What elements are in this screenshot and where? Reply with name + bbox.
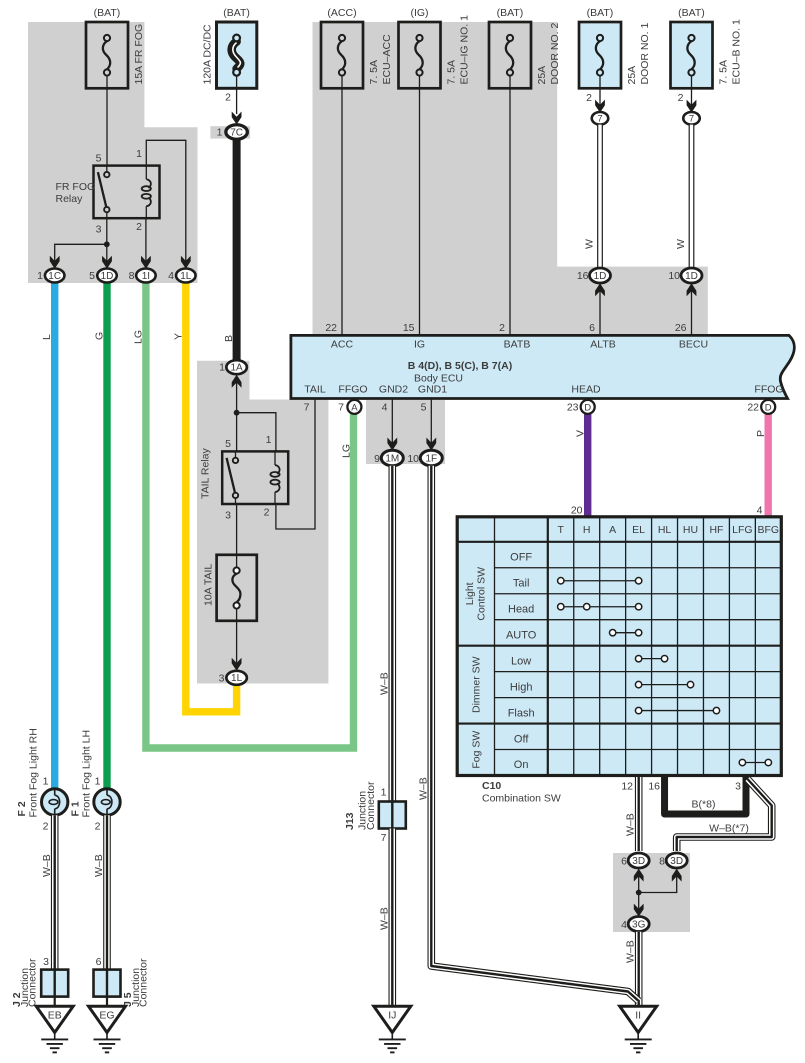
arrow into 6 3D [634, 869, 644, 882]
svg-text:1M: 1M [385, 453, 399, 464]
svg-text:On: On [514, 759, 529, 771]
svg-text:DOOR NO. 2: DOOR NO. 2 [549, 22, 561, 84]
svg-text:FFOG: FFOG [754, 384, 783, 396]
svg-text:ACC: ACC [331, 339, 354, 351]
svg-text:22: 22 [325, 322, 337, 334]
fuse 25A DOOR NO.1 [579, 22, 621, 88]
ground II [620, 1006, 657, 1032]
svg-text:ECU–B NO. 1: ECU–B NO. 1 [731, 19, 743, 85]
svg-text:7: 7 [689, 114, 694, 125]
svg-text:3: 3 [219, 672, 225, 684]
wire W from connector 7 to 10(1D) [689, 125, 695, 269]
svg-text:HU: HU [683, 524, 698, 536]
wire DOOR NO.1 fuse pin 2 to connector 7 [599, 76, 601, 112]
wire W-B GND1/1F to ground II [431, 466, 638, 1001]
svg-text:W–B(*7): W–B(*7) [709, 823, 749, 835]
svg-text:H: H [583, 524, 591, 536]
wire 1D to ALTB pin 6 [599, 283, 601, 335]
svg-text:FR FOG: FR FOG [56, 181, 96, 193]
svg-text:W–B: W–B [624, 940, 636, 963]
wire relay pin 2 to 1I [145, 218, 147, 262]
svg-text:AUTO: AUTO [506, 629, 537, 641]
svg-text:2: 2 [43, 821, 49, 833]
Body ECU B4(D) B5(C) B7(A) [291, 335, 794, 398]
svg-text:Connector: Connector [365, 781, 377, 830]
svg-text:BATB: BATB [504, 339, 531, 351]
svg-text:1I: 1I [142, 271, 150, 282]
svg-text:4: 4 [168, 270, 174, 282]
svg-text:5: 5 [96, 153, 102, 165]
svg-text:2: 2 [264, 507, 270, 519]
gray harness region (TAIL relay block) [197, 361, 328, 684]
svg-text:Front Fog Light RH: Front Fog Light RH [28, 728, 40, 817]
svg-text:A: A [351, 402, 358, 413]
svg-text:Fog SW: Fog SW [471, 731, 483, 769]
svg-text:8: 8 [659, 855, 665, 867]
svg-text:Front Fog Light LH: Front Fog Light LH [81, 730, 93, 818]
junction connector J5 [94, 970, 121, 997]
svg-text:C10: C10 [482, 780, 501, 792]
svg-text:Head: Head [508, 603, 534, 615]
svg-text:4: 4 [757, 505, 763, 517]
svg-text:1F: 1F [425, 453, 437, 464]
svg-text:7. 5A: 7. 5A [718, 60, 730, 85]
svg-text:IJ: IJ [388, 1010, 396, 1022]
svg-text:20: 20 [571, 505, 583, 517]
contact Head T-H-EL [561, 606, 639, 608]
svg-text:W–B: W–B [624, 813, 636, 836]
contact AUTO A-EL [613, 632, 639, 634]
wire L blue from 1C to front fog light RH [51, 282, 58, 789]
svg-text:1L: 1L [231, 673, 243, 684]
svg-text:Connector: Connector [138, 958, 150, 1007]
svg-text:W–B: W–B [417, 777, 429, 800]
svg-text:GND1: GND1 [418, 384, 447, 396]
svg-text:16: 16 [577, 270, 589, 282]
arrow into 8 3D [672, 869, 682, 882]
arrow into 1D [102, 256, 112, 269]
svg-text:4: 4 [621, 919, 627, 931]
svg-text:(ACC): (ACC) [327, 7, 356, 19]
arrow into 1M [387, 438, 397, 451]
wire P pink FFOG to combination SW pin 4 [765, 414, 772, 518]
svg-text:A: A [609, 524, 616, 536]
svg-text:3: 3 [43, 956, 49, 968]
svg-text:1: 1 [217, 127, 223, 139]
svg-text:GND2: GND2 [379, 384, 408, 396]
junction node 3D [636, 890, 642, 896]
arrow into 1I [141, 256, 151, 269]
wire W-B F1 to J5 [103, 815, 111, 970]
svg-text:ECU–IG NO. 1: ECU–IG NO. 1 [459, 15, 471, 85]
svg-text:B 4(D), B 5(C), B 7(A): B 4(D), B 5(C), B 7(A) [408, 360, 512, 372]
gray harness region (FR FOG relay block) [28, 22, 198, 283]
svg-text:120A DC/DC: 120A DC/DC [202, 24, 214, 85]
wire relay pin 1 to 1L [146, 140, 186, 262]
svg-text:15A FR FOG: 15A FR FOG [133, 24, 145, 85]
FR FOG relay [94, 166, 160, 219]
arrow into 7C [232, 112, 242, 125]
svg-text:W–B: W–B [93, 854, 105, 877]
svg-text:3D: 3D [670, 856, 683, 867]
svg-text:HL: HL [658, 524, 672, 536]
fuse 7.5A ECU-IG NO.1 [399, 22, 441, 88]
svg-text:2: 2 [678, 92, 684, 104]
wire LG light-green from 1I to FFGO [146, 282, 354, 748]
svg-text:(IG): (IG) [410, 7, 428, 19]
junction connector J13 [379, 802, 406, 829]
contact Tail T-EL [561, 580, 639, 582]
svg-text:1D: 1D [685, 271, 698, 282]
svg-text:3D: 3D [632, 856, 645, 867]
svg-text:Light: Light [464, 582, 476, 605]
svg-text:Relay: Relay [56, 193, 84, 205]
svg-text:1D: 1D [594, 271, 607, 282]
svg-text:3: 3 [225, 510, 231, 522]
wire relay pin 3 to 10A TAIL fuse [236, 504, 238, 571]
contact Flash EL-HF [639, 710, 717, 712]
wire junction to 3G [638, 893, 640, 911]
arrow into 1C [50, 256, 60, 269]
svg-text:6: 6 [96, 956, 102, 968]
svg-text:LFG: LFG [732, 524, 752, 536]
svg-text:W–B: W–B [378, 907, 390, 930]
wire W-B J13 to ground IJ [388, 829, 396, 1006]
front fog light RH F2 [42, 789, 68, 815]
wire ACC fuse to Body ECU pin 22 [341, 76, 343, 336]
svg-text:2: 2 [586, 92, 592, 104]
wire from 120A fuse to 7C [236, 76, 238, 115]
svg-text:7C: 7C [230, 127, 243, 138]
gray band behind connector 7C [210, 126, 250, 138]
svg-text:6: 6 [589, 322, 595, 334]
svg-text:High: High [510, 681, 533, 693]
svg-text:W: W [675, 239, 687, 249]
svg-text:L: L [41, 334, 53, 340]
svg-text:12: 12 [621, 781, 633, 793]
svg-text:5: 5 [225, 438, 231, 450]
fuse 15A FR FOG [86, 22, 128, 88]
svg-text:4: 4 [382, 402, 388, 414]
junction connector J2 [41, 970, 68, 997]
ground EG [89, 1006, 126, 1032]
svg-text:II: II [635, 1010, 641, 1022]
svg-text:OFF: OFF [510, 551, 532, 563]
connector 7 (DOOR NO.1) [592, 112, 609, 125]
svg-text:Connector: Connector [27, 958, 39, 1007]
wire W-B(*7) from pin 3 to 8(3D) [677, 779, 772, 851]
wire 1D to BECU pin 26 [691, 283, 693, 335]
svg-text:1: 1 [136, 148, 142, 160]
ground EB [36, 1006, 73, 1032]
svg-text:V: V [574, 430, 586, 437]
svg-text:Control SW: Control SW [476, 567, 488, 621]
svg-text:Tail: Tail [513, 577, 530, 589]
wire J2 to ground EB [54, 997, 56, 1007]
svg-text:HF: HF [709, 524, 723, 536]
arrow into 1L [181, 256, 191, 269]
junction node below 1A [234, 410, 240, 416]
svg-text:W–B: W–B [41, 854, 53, 877]
wire 10A TAIL fuse to 1L [236, 608, 238, 664]
wire W from connector 7 to 16(1D) [597, 125, 603, 269]
wire DOOR NO.2 fuse to Body ECU pin 2 [509, 76, 511, 336]
svg-text:J13: J13 [344, 812, 356, 830]
svg-text:W–B: W–B [378, 672, 390, 695]
svg-text:10: 10 [407, 453, 419, 465]
svg-text:8: 8 [129, 270, 135, 282]
wire J5 to ground EG [106, 997, 108, 1007]
svg-text:P: P [755, 430, 767, 437]
svg-text:10A TAIL: 10A TAIL [203, 564, 215, 606]
svg-text:EG: EG [99, 1010, 114, 1022]
svg-text:2: 2 [136, 221, 142, 233]
svg-text:3G: 3G [632, 919, 646, 930]
svg-text:1L: 1L [180, 271, 192, 282]
svg-text:(BAT): (BAT) [587, 7, 614, 19]
wire junction to 1D [106, 244, 108, 262]
svg-text:2: 2 [95, 821, 101, 833]
svg-text:BECU: BECU [679, 339, 708, 351]
wire junction to 1C [55, 244, 107, 262]
wire junction to relay pin 1 [237, 413, 276, 452]
svg-text:B(*8): B(*8) [692, 799, 716, 811]
svg-text:16: 16 [648, 781, 660, 793]
svg-text:D: D [584, 402, 591, 413]
svg-text:ALTB: ALTB [590, 339, 615, 351]
svg-text:Dimmer SW: Dimmer SW [471, 656, 483, 713]
svg-text:W: W [584, 239, 596, 249]
fuse 7.5A ECU-ACC [321, 22, 363, 88]
arrow into 1F [426, 438, 436, 451]
svg-text:7. 5A: 7. 5A [446, 60, 458, 85]
svg-text:1C: 1C [48, 271, 61, 282]
wire TAIL pin to relay pin 2 [276, 399, 315, 530]
svg-text:EL: EL [632, 524, 645, 536]
svg-text:1: 1 [43, 776, 49, 788]
svg-text:1: 1 [381, 786, 387, 798]
svg-text:EB: EB [48, 1010, 62, 1022]
wire B(*8) from pin 16 to pin 3 [665, 777, 746, 814]
svg-text:1: 1 [266, 434, 272, 446]
contact High EL-HU [639, 684, 691, 686]
svg-text:22: 22 [747, 402, 759, 414]
svg-text:IG: IG [414, 339, 425, 351]
wire ECU-B fuse pin 2 to connector 7 [691, 76, 693, 112]
svg-text:1: 1 [37, 270, 43, 282]
wire 1A to junction [236, 376, 238, 413]
arrow into 1L [232, 658, 242, 671]
svg-text:Off: Off [514, 733, 529, 745]
svg-text:1D: 1D [101, 271, 114, 282]
wire junction to relay pin 5 [236, 413, 238, 452]
wire 6(3D) to junction [638, 870, 640, 893]
svg-text:5: 5 [421, 402, 427, 414]
svg-text:DOOR NO. 1: DOOR NO. 1 [639, 22, 651, 84]
svg-text:3: 3 [96, 224, 102, 236]
svg-text:G: G [94, 332, 106, 340]
svg-text:7: 7 [338, 402, 344, 414]
svg-text:5: 5 [89, 270, 95, 282]
svg-text:25A: 25A [536, 66, 548, 85]
svg-text:TAIL Relay: TAIL Relay [200, 447, 212, 499]
svg-text:10: 10 [668, 270, 680, 282]
svg-text:HEAD: HEAD [571, 384, 601, 396]
arrow into 3G [634, 904, 644, 917]
svg-text:ECU–ACC: ECU–ACC [381, 34, 393, 85]
wire IG fuse to Body ECU pin 15 [419, 76, 421, 336]
svg-text:(BAT): (BAT) [94, 7, 121, 19]
svg-text:7: 7 [597, 114, 602, 125]
arrow into 1A from below [232, 375, 242, 388]
wire Y yellow from 1L to connector 1L of tail fuse [186, 282, 237, 712]
svg-text:FFGO: FFGO [338, 384, 367, 396]
TAIL relay [222, 451, 288, 504]
contact Low EL-HL [639, 658, 665, 660]
svg-text:3: 3 [735, 781, 741, 793]
svg-text:26: 26 [675, 322, 687, 334]
svg-text:7. 5A: 7. 5A [368, 60, 380, 85]
fuse 120A DC/DC [217, 22, 257, 88]
wire junction to 8(3D) [639, 870, 677, 893]
svg-text:LG: LG [132, 330, 144, 344]
wire W-B from 3G to ground II [635, 932, 643, 1006]
fuse 7.5A ECU-B NO.1 [671, 22, 713, 88]
svg-text:2: 2 [225, 92, 231, 104]
svg-text:D: D [765, 402, 772, 413]
wire GND1 to 1F [430, 399, 432, 445]
svg-text:7: 7 [381, 832, 387, 844]
gray harness region (instrument panel fuses) [313, 22, 708, 336]
svg-text:23: 23 [567, 402, 579, 414]
svg-text:7: 7 [304, 402, 310, 414]
svg-text:9: 9 [374, 453, 380, 465]
svg-text:25A: 25A [626, 66, 638, 85]
wire GND2 to 1M [391, 399, 393, 445]
fuse 25A DOOR NO.2 [489, 22, 531, 88]
svg-text:Combination SW: Combination SW [482, 793, 561, 805]
svg-text:T: T [558, 524, 565, 536]
wire W-B GND2/1M to J13 [388, 466, 396, 801]
svg-text:1: 1 [219, 362, 225, 374]
wire W-B from pin 12 to 6(3D) [635, 777, 643, 851]
contact On LFG-BFG [742, 762, 768, 764]
front fog light LH F1 [94, 789, 120, 815]
wire V violet HEAD to combination SW pin 20 [584, 414, 591, 518]
combination switch C10 [457, 517, 781, 776]
svg-text:2: 2 [499, 322, 505, 334]
fuse 10A TAIL [217, 555, 257, 621]
svg-text:(BAT): (BAT) [678, 7, 705, 19]
svg-text:F 2: F 2 [16, 801, 28, 816]
wire B thick black from 7C to 1A [233, 138, 241, 361]
junction node [104, 241, 110, 247]
wire from 15A FR FOG fuse to relay pin 5 [106, 76, 108, 166]
svg-text:(BAT): (BAT) [223, 7, 250, 19]
svg-text:Flash: Flash [508, 707, 535, 719]
wire W-B F2 to J2 [51, 815, 59, 970]
svg-text:6: 6 [621, 855, 627, 867]
gray patch behind connectors 3D 3G [613, 853, 690, 932]
gray patch behind connectors 1M 1F [366, 400, 445, 464]
connector 7 (ECU-B) [683, 112, 700, 125]
svg-text:BFG: BFG [758, 524, 780, 536]
svg-text:15: 15 [403, 322, 415, 334]
svg-text:1A: 1A [230, 363, 243, 374]
ground IJ [374, 1006, 411, 1032]
svg-text:1: 1 [95, 776, 101, 788]
wire G green from 1D to front fog light LH [103, 282, 110, 789]
svg-text:(BAT): (BAT) [497, 7, 524, 19]
svg-text:Low: Low [511, 655, 531, 667]
wire relay pin 3 to junction [106, 218, 108, 244]
svg-text:Y: Y [172, 333, 184, 340]
svg-text:B: B [223, 335, 235, 342]
svg-text:TAIL: TAIL [304, 384, 326, 396]
svg-text:LG: LG [340, 444, 352, 458]
